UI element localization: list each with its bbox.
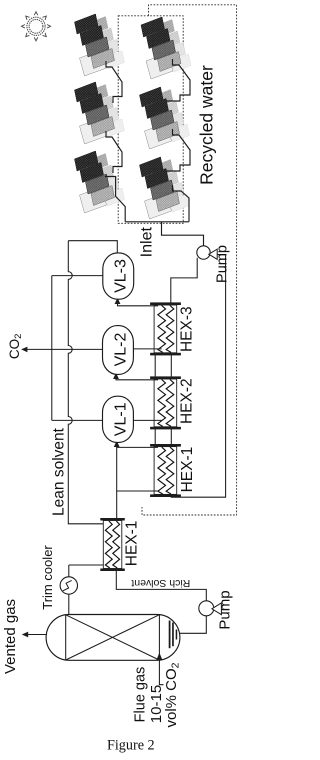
svg-text:HEX-1: HEX-1	[179, 447, 196, 493]
svg-text:HEX-1: HEX-1	[123, 521, 140, 567]
svg-text:VL-3: VL-3	[113, 259, 130, 293]
svg-text:Rich Solvent: Rich Solvent	[131, 577, 190, 589]
svg-text:HEX-3: HEX-3	[179, 306, 196, 352]
svg-text:vol% CO2: vol% CO2	[163, 662, 181, 727]
svg-text:Trim cooler: Trim cooler	[40, 545, 55, 610]
svg-text:Flue gas: Flue gas	[132, 667, 148, 723]
svg-text:Recycled water: Recycled water	[196, 65, 216, 185]
svg-text:VL-2: VL-2	[113, 333, 130, 367]
svg-text:VL-1: VL-1	[113, 402, 130, 436]
svg-text:HEX-2: HEX-2	[179, 378, 196, 424]
svg-text:Figure 2: Figure 2	[107, 738, 155, 754]
svg-text:Lean solvent: Lean solvent	[51, 427, 68, 516]
svg-text:Vented gas: Vented gas	[2, 599, 19, 674]
svg-text:Inlet: Inlet	[138, 227, 155, 258]
svg-text:Pump: Pump	[215, 245, 231, 283]
svg-text:Pump: Pump	[217, 590, 234, 629]
